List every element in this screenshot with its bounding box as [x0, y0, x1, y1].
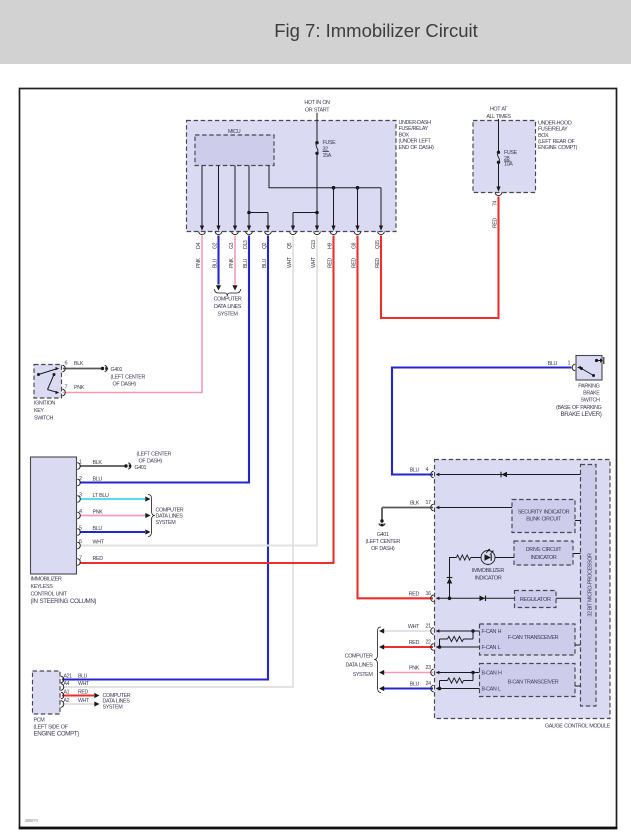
svg-text:RED: RED [409, 640, 420, 646]
svg-text:22: 22 [426, 640, 432, 646]
svg-text:COMPUTER: COMPUTER [156, 507, 184, 513]
svg-text:G401: G401 [111, 367, 123, 373]
svg-text:INDICATOR: INDICATOR [475, 576, 502, 582]
svg-text:WHT: WHT [408, 624, 420, 630]
svg-text:ENGINE COMPT): ENGINE COMPT) [34, 731, 80, 738]
svg-text:WHT: WHT [78, 681, 90, 687]
svg-text:PNK: PNK [74, 385, 85, 391]
svg-text:SWITCH: SWITCH [34, 416, 53, 422]
svg-text:4: 4 [79, 509, 82, 515]
svg-text:RED: RED [409, 591, 420, 597]
svg-text:WHT: WHT [78, 698, 90, 704]
svg-text:4: 4 [426, 467, 429, 473]
svg-text:B-CAN H: B-CAN H [482, 671, 502, 677]
svg-text:ALL TIMES: ALL TIMES [486, 114, 511, 120]
svg-text:17: 17 [426, 500, 432, 506]
svg-text:5: 5 [79, 526, 82, 532]
svg-text:REGULATOR: REGULATOR [520, 597, 551, 603]
svg-text:A2: A2 [64, 698, 70, 704]
svg-text:BOX: BOX [538, 133, 549, 139]
svg-text:DATA LINES: DATA LINES [345, 663, 373, 669]
svg-text:PARKING: PARKING [578, 384, 599, 390]
svg-text:INDICATOR: INDICATOR [531, 555, 557, 561]
svg-text:IMMOBILIZER: IMMOBILIZER [31, 576, 62, 582]
svg-text:END OF DASH): END OF DASH) [399, 145, 435, 151]
svg-text:A1: A1 [64, 690, 70, 696]
svg-text:DATA LINES: DATA LINES [214, 304, 242, 310]
svg-text:G401: G401 [377, 532, 389, 538]
svg-text:HOT AT: HOT AT [490, 106, 508, 112]
svg-text:BLK: BLK [410, 501, 420, 507]
svg-text:F-CAN L: F-CAN L [482, 645, 501, 651]
svg-text:GAUGE CONTROL MODULE: GAUGE CONTROL MODULE [545, 724, 611, 730]
svg-text:OR START: OR START [305, 108, 330, 114]
svg-text:15A: 15A [323, 153, 332, 159]
svg-text:A4: A4 [64, 681, 70, 687]
svg-text:1: 1 [568, 361, 571, 367]
svg-text:BLK: BLK [93, 460, 103, 466]
svg-text:(LEFT CENTER: (LEFT CENTER [137, 452, 172, 458]
svg-text:(LEFT CENTER: (LEFT CENTER [365, 539, 400, 545]
svg-text:(IN STEERING COLUMN): (IN STEERING COLUMN) [31, 598, 97, 605]
svg-text:23: 23 [426, 665, 432, 671]
svg-text:3: 3 [79, 493, 82, 499]
svg-text:7: 7 [65, 385, 68, 391]
svg-text:SECURITY INDICATOR: SECURITY INDICATOR [518, 510, 570, 516]
svg-text:OF DASH): OF DASH) [139, 459, 163, 465]
svg-text:F-CAN TRANSCEIVER: F-CAN TRANSCEIVER [508, 635, 559, 641]
svg-text:PNK: PNK [93, 510, 104, 516]
svg-text:BRAKE: BRAKE [583, 391, 600, 397]
svg-text:WHT: WHT [93, 540, 105, 546]
svg-text:2: 2 [79, 476, 82, 482]
svg-text:1: 1 [79, 460, 82, 466]
svg-text:BLU: BLU [93, 526, 103, 532]
svg-text:BLU: BLU [78, 674, 88, 680]
svg-text:SYSTEM: SYSTEM [218, 311, 239, 317]
svg-text:SYSTEM: SYSTEM [353, 672, 374, 678]
svg-text:24: 24 [426, 681, 432, 687]
svg-text:10A: 10A [504, 162, 513, 168]
svg-text:F-CAN H: F-CAN H [482, 629, 502, 635]
svg-text:(UNDER LEFT: (UNDER LEFT [399, 139, 432, 145]
svg-text:MICU: MICU [228, 129, 241, 135]
svg-text:DRIVE CIRCUIT: DRIVE CIRCUIT [526, 547, 562, 553]
svg-text:BLINK CIRCUIT: BLINK CIRCUIT [526, 517, 562, 523]
svg-text:BLU: BLU [548, 361, 558, 367]
svg-text:UNDER-HOOD: UNDER-HOOD [538, 120, 572, 126]
svg-text:BRAKE LEVER): BRAKE LEVER) [561, 411, 602, 418]
svg-text:KEY: KEY [34, 408, 44, 414]
svg-text:FUSE: FUSE [323, 140, 337, 146]
svg-text:(LEFT REAR OF: (LEFT REAR OF [538, 139, 575, 145]
svg-text:6: 6 [79, 539, 82, 545]
svg-text:PCM: PCM [34, 718, 46, 724]
svg-text:HOT IN ON: HOT IN ON [304, 100, 330, 106]
svg-text:21: 21 [426, 624, 432, 630]
svg-text:SWITCH: SWITCH [581, 398, 600, 404]
svg-text:SYSTEM: SYSTEM [156, 520, 177, 526]
svg-text:ENGINE COMPT): ENGINE COMPT) [538, 145, 578, 151]
svg-text:UNDER-DASH: UNDER-DASH [399, 120, 432, 126]
svg-text:6: 6 [65, 361, 68, 367]
svg-text:B-CAN TRANSCEIVER: B-CAN TRANSCEIVER [508, 679, 559, 685]
svg-text:BLU: BLU [93, 477, 103, 483]
svg-text:BLU: BLU [410, 682, 420, 688]
svg-text:KEYLESS: KEYLESS [31, 584, 54, 590]
svg-text:FUSE/RELAY: FUSE/RELAY [399, 126, 429, 132]
svg-text:7: 7 [79, 556, 82, 562]
svg-text:G401: G401 [135, 465, 147, 471]
svg-text:32 BIT MICRO-PROCESSOR: 32 BIT MICRO-PROCESSOR [588, 553, 594, 617]
svg-text:BLU: BLU [410, 468, 420, 474]
svg-text:(LEFT CENTER: (LEFT CENTER [111, 375, 146, 381]
svg-text:IMMOBILIZER: IMMOBILIZER [472, 568, 505, 574]
svg-text:CONTROL UNIT: CONTROL UNIT [31, 592, 68, 598]
svg-text:IGNITION: IGNITION [34, 401, 55, 407]
svg-text:PNK: PNK [409, 666, 420, 672]
svg-text:A21: A21 [64, 674, 73, 680]
svg-text:RED: RED [93, 556, 104, 562]
svg-text:BOX: BOX [399, 132, 410, 138]
svg-text:BLK: BLK [74, 361, 84, 367]
svg-text:B-CAN L: B-CAN L [482, 687, 501, 693]
svg-text:OF DASH): OF DASH) [371, 546, 395, 552]
svg-text:FUSE/RELAY: FUSE/RELAY [538, 127, 568, 133]
svg-text:LT BLU: LT BLU [93, 493, 109, 499]
svg-text:16: 16 [426, 591, 432, 597]
svg-text:SYSTEM: SYSTEM [103, 705, 124, 711]
svg-text:COMPUTER: COMPUTER [345, 653, 373, 659]
svg-text:RED: RED [78, 690, 88, 696]
svg-text:OF DASH): OF DASH) [113, 382, 137, 388]
svg-text:465874: 465874 [25, 818, 39, 823]
svg-text:DATA LINES: DATA LINES [156, 514, 184, 520]
svg-text:COMPUTER: COMPUTER [214, 297, 242, 303]
